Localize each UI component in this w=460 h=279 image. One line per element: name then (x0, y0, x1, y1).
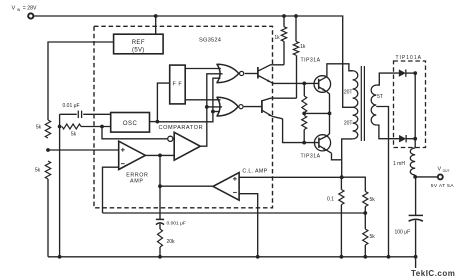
node D2 cathode (413, 137, 417, 141)
node blanking to NOR2 (211, 110, 215, 114)
wire ground stub (415, 257, 417, 268)
node ground left (58, 255, 62, 259)
svg-text:V: V (438, 167, 442, 173)
node comparator to NOR2 (205, 105, 209, 109)
node output LC (413, 175, 417, 179)
wire primary bottom to sense column (342, 139, 353, 177)
node bias midpoint (302, 112, 306, 116)
resistor R6 bias upper (302, 83, 307, 112)
resistor R3 1k (274, 16, 286, 65)
svg-text:V: V (12, 6, 16, 12)
svg-text:TIP31A: TIP31A (301, 57, 321, 63)
svg-text:= 28V: = 28V (23, 6, 37, 12)
wire Q1 emitter to TIP31A base (272, 82, 319, 84)
wire FF Qbar to NOR2 (185, 99, 220, 101)
diode D1 (399, 69, 415, 76)
IC SG3524 dashed boundary (94, 26, 273, 208)
node error amp + tap (46, 148, 50, 152)
resistor R8 20k (158, 229, 176, 257)
node 1k R4 tap on rail (294, 14, 298, 18)
label 5V AT 5A (431, 183, 454, 189)
wire R2 to ground rail (47, 179, 49, 257)
wire secondary center tap to ground rail (376, 107, 388, 257)
oscillator OSC (111, 113, 150, 133)
label TIP31A lower (301, 154, 321, 160)
label C.L. AMP (242, 169, 267, 175)
capacitor C1 0.01 uF (60, 103, 111, 118)
node REF tap on rail (154, 14, 158, 18)
svg-text:5k: 5k (35, 167, 41, 173)
wire NOR2 output to Q2 base (244, 106, 262, 108)
svg-text:ERROR: ERROR (126, 173, 148, 179)
label COMPARATOR (159, 125, 204, 131)
wire NOR1 output to Q1 base (245, 73, 258, 75)
node Q2 emitter / bias resistor (302, 141, 306, 145)
svg-text:1k: 1k (300, 44, 306, 50)
svg-text:100 μF: 100 μF (395, 230, 411, 236)
transformer T1 core (361, 66, 364, 141)
wire compensation branch (159, 155, 161, 219)
comparator triangle (168, 132, 201, 160)
wire to output terminal (415, 176, 437, 178)
transistor Q3 TIP31A upper (314, 76, 331, 93)
node ground output cap (414, 255, 418, 259)
svg-text:1k: 1k (274, 35, 280, 41)
svg-text:0.1: 0.1 (327, 196, 334, 202)
svg-text:0.001 μF: 0.001 μF (167, 220, 186, 226)
resistor R9 0.1 sense (327, 177, 344, 257)
wire ground rail (48, 256, 416, 258)
wire REF to rail (155, 16, 157, 34)
resistor R1 5k (36, 120, 51, 138)
wire Q2 emitter to TIP31A base (283, 119, 319, 143)
node ground 20k (158, 255, 162, 259)
input terminal Vin (28, 13, 33, 18)
svg-text:SG3524: SG3524 (199, 38, 221, 44)
node current sense top (340, 175, 344, 179)
node divider midpoint (363, 211, 367, 215)
wire comparator stub NOR2 (207, 106, 222, 108)
svg-text:OUT: OUT (443, 169, 450, 173)
node ground CL- (256, 255, 260, 259)
wire REF output to left column (48, 42, 114, 120)
op-amp current limit amplifier (213, 173, 239, 201)
wire OSC blanking to NOR gates (157, 78, 220, 122)
resistor R2 5k (35, 161, 51, 179)
label Vin = 28V (12, 6, 38, 13)
wire secondary top to diode D1 (376, 73, 399, 85)
svg-text:5k: 5k (370, 234, 376, 240)
wire FF Q to NOR1 (185, 68, 221, 70)
transistor Q2 internal (262, 98, 297, 119)
wire feedback line (103, 212, 366, 214)
wire to error amp + (48, 149, 119, 151)
node ground center tap (387, 255, 391, 259)
node ground sense (340, 255, 344, 259)
node timing network left (58, 125, 62, 129)
resistor R10 5k divider top (363, 191, 376, 213)
gate NOR2 (217, 97, 243, 116)
resistor R11 5k divider bottom (363, 213, 376, 257)
wire Q4 emitter to sense node (332, 153, 342, 160)
transistor Q1 internal (258, 65, 284, 84)
svg-text:5k: 5k (71, 132, 77, 138)
node push-pull midpoint (328, 112, 332, 116)
gate NOR1 (217, 64, 244, 82)
label TIP101A (396, 55, 422, 61)
svg-text:0.01 μF: 0.01 μF (63, 103, 80, 109)
wire comparator output to NOR gates (200, 74, 222, 146)
svg-text:F F: F F (172, 82, 182, 88)
capacitor C2 0.001 uF (156, 219, 186, 229)
watermark TekIC.com (411, 269, 455, 278)
node OSC output (156, 120, 160, 124)
wire blanking stub NOR2 (213, 111, 220, 113)
regulator REF (5V) (114, 34, 164, 54)
output terminal Vout (438, 174, 443, 179)
wire Q3 collector to primary top (327, 64, 353, 77)
wire OSC to FF clock (157, 83, 169, 122)
wire CL amp output (160, 185, 213, 187)
node D1 cathode (413, 71, 417, 75)
label SG3524 (199, 38, 221, 44)
flip-flop FF (170, 65, 186, 104)
svg-text:1 mH: 1 mH (393, 161, 405, 167)
wire top rail Vin (34, 16, 353, 107)
label TIP31A upper (301, 57, 321, 63)
svg-text:5V AT 5A: 5V AT 5A (431, 183, 454, 189)
svg-text:COMPARATOR: COMPARATOR (159, 125, 204, 131)
resistor R4 1k (293, 16, 306, 98)
svg-text:20k: 20k (167, 239, 176, 245)
wire osc timing node vertical (59, 114, 61, 256)
transformer T1 primary winding (344, 71, 358, 139)
rectifier TIP101A dashed boundary (394, 61, 426, 148)
wire CL amp - to ground rail (239, 194, 258, 257)
wire rectifier output (414, 73, 416, 148)
label Vout (438, 167, 450, 174)
resistor R5 5k timing (62, 124, 111, 138)
wire sense top to divider top (342, 177, 366, 191)
svg-text:5T: 5T (377, 94, 383, 100)
node CL amp output junction (158, 184, 162, 188)
wire bias mid to emitter node (304, 112, 329, 114)
svg-text:REF: REF (132, 40, 145, 46)
svg-text:20T: 20T (344, 90, 353, 96)
wire error amp - input (103, 167, 119, 213)
svg-text:20T: 20T (344, 121, 353, 127)
svg-text:5k: 5k (370, 197, 376, 203)
wire secondary bottom to diode D2 (376, 125, 399, 139)
node ground divider (363, 255, 367, 259)
node 1k R3 tap on rail (282, 14, 286, 18)
node Q1 emitter / bias resistor (302, 82, 306, 86)
transformer T1 secondary winding (371, 85, 383, 125)
wire OSC output (150, 121, 158, 123)
node comparator input tap (100, 125, 104, 129)
wire Q3 emitter to Q4 collector (327, 92, 329, 136)
diode D2 (399, 135, 415, 142)
svg-text:C.L. AMP: C.L. AMP (242, 169, 267, 175)
op-amp error amplifier (119, 141, 146, 169)
node error amp output (158, 154, 162, 158)
resistor R7 bias lower (302, 116, 307, 143)
wire to comparator inverting input (102, 127, 167, 139)
transistor Q4 TIP31A lower (314, 135, 331, 154)
wire error amp output to comparator (145, 154, 174, 156)
svg-text:TekIC.com: TekIC.com (411, 269, 455, 278)
wire CL amp + to sense top (239, 176, 342, 178)
svg-text:OSC: OSC (123, 121, 138, 127)
svg-text:5k: 5k (36, 125, 42, 131)
svg-text:(5V): (5V) (132, 47, 145, 53)
svg-text:AMP: AMP (130, 179, 143, 185)
svg-text:TIP31A: TIP31A (301, 154, 321, 160)
label ERROR AMP (126, 173, 148, 185)
capacitor C3 100 uF (395, 177, 424, 257)
svg-text:TIP101A: TIP101A (396, 55, 422, 61)
inductor L1 1 mH (393, 148, 415, 177)
